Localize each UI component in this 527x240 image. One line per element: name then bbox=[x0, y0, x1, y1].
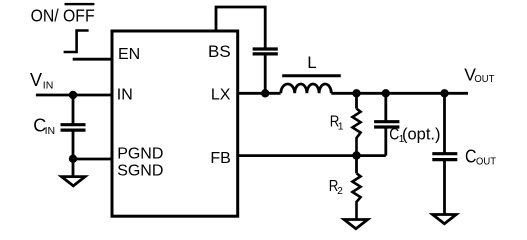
svg-text:OUT: OUT bbox=[474, 73, 495, 85]
svg-text:FB: FB bbox=[210, 150, 230, 167]
svg-text:SGND: SGND bbox=[117, 162, 163, 179]
svg-text:L: L bbox=[307, 53, 316, 72]
svg-text:IN: IN bbox=[45, 125, 56, 137]
svg-text:1: 1 bbox=[338, 122, 344, 133]
svg-text:OUT: OUT bbox=[476, 156, 497, 168]
svg-text:2: 2 bbox=[337, 186, 343, 197]
svg-text:BS: BS bbox=[208, 42, 231, 61]
svg-text:V: V bbox=[30, 70, 42, 90]
svg-text:C: C bbox=[465, 147, 477, 167]
svg-text:IN: IN bbox=[43, 80, 54, 92]
svg-text:PGND: PGND bbox=[117, 145, 163, 162]
svg-text:ON/ OFF: ON/ OFF bbox=[31, 6, 95, 26]
svg-text:LX: LX bbox=[211, 87, 231, 104]
svg-text:EN: EN bbox=[118, 46, 140, 63]
svg-text:IN: IN bbox=[117, 87, 133, 104]
svg-text:(opt.): (opt.) bbox=[402, 125, 441, 143]
